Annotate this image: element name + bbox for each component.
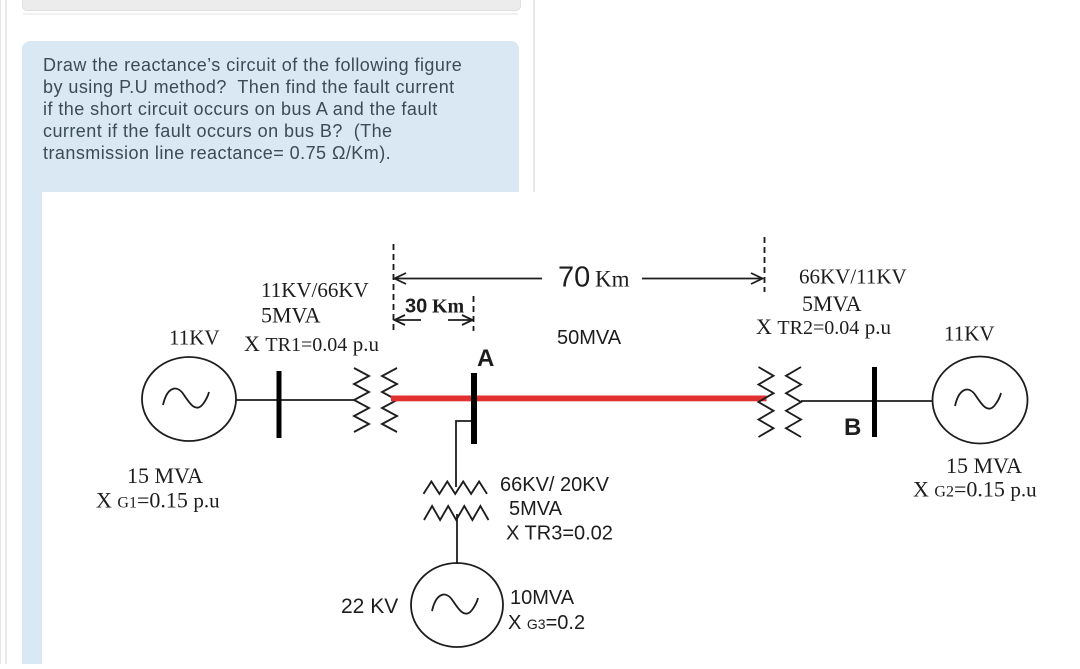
wire G1 to bus1 [236,399,277,401]
generator G2 [933,357,1028,444]
svg-text:X G1=0.15 p.u: X G1=0.15 p.u [96,488,220,513]
svg-text:66KV/11KV: 66KV/11KV [799,265,907,289]
dashed line right (70Km end) [764,237,766,292]
dashed line left (70Km start) [393,244,395,331]
svg-text:5MVA: 5MVA [802,291,862,316]
70Km dimension arrow right [642,273,763,284]
transformer TR3 winding primary [424,482,488,494]
transmission line (red) [391,396,767,402]
svg-text:5MVA: 5MVA [509,498,563,520]
transformer TR3 winding secondary [424,506,489,520]
bus bar 1 [277,371,282,438]
svg-text:15 MVA: 15 MVA [127,463,203,488]
transformer TR1 winding left [354,368,369,432]
svg-text:10MVA: 10MVA [510,587,575,609]
svg-text:X TR1=0.04 p.u: X TR1=0.04 p.u [244,331,379,356]
transformer TR2 winding right [786,367,801,437]
transformer TR1 winding right [382,368,397,432]
svg-text:A: A [477,345,494,372]
svg-text:15 MVA: 15 MVA [946,453,1022,478]
svg-text:5MVA: 5MVA [261,303,321,328]
svg-text:66KV/ 20KV: 66KV/ 20KV [500,474,610,496]
svg-text:Km: Km [432,296,465,318]
30Km dimension arrow left [395,315,422,325]
70Km dimension arrow left [395,273,543,284]
svg-text:X TR3=0.02: X TR3=0.02 [506,523,613,545]
svg-text:11KV: 11KV [169,326,220,350]
generator G3 [411,563,503,647]
svg-text:X G3=0.2: X G3=0.2 [508,612,585,634]
30Km dimension arrow right [448,315,473,325]
svg-text:11KV/66KV: 11KV/66KV [261,278,369,302]
generator G1 [142,357,236,441]
svg-text:X G2=0.15 p.u: X G2=0.15 p.u [913,477,1037,502]
svg-text:22 KV: 22 KV [341,595,398,618]
dashed line at bus A (30Km end) [473,296,475,331]
svg-text:11KV: 11KV [944,322,995,346]
svg-text:70: 70 [558,262,590,294]
svg-text:X TR2=0.04 p.u: X TR2=0.04 p.u [756,314,891,339]
wire TR2 to bus B [801,400,873,402]
svg-text:30: 30 [405,296,427,318]
wire bus1 to TR1 [281,399,354,401]
svg-text:B: B [844,414,861,441]
wire TR3 to G3 [456,514,458,564]
transformer TR2 winding left [759,367,774,437]
wire bus A to TR3 (jog) [456,421,471,487]
bus bar B [872,367,877,437]
wire bus B to G2 [877,400,933,402]
svg-text:Km: Km [595,267,630,292]
bus bar A [471,373,477,444]
svg-text:50MVA: 50MVA [557,327,622,349]
